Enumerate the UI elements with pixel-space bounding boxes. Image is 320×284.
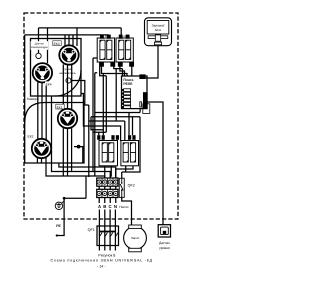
wire EK1 b down	[67, 128, 69, 176]
wire bundle h3	[89, 105, 125, 177]
wire EK1 a down	[62, 128, 64, 176]
label EK1	[56, 104, 64, 109]
svg-text:Насос: Насос	[131, 236, 140, 240]
svg-text:уровня: уровня	[159, 246, 170, 250]
KM3 KM4 top terminals	[97, 135, 135, 140]
wire to EK4	[47, 28, 49, 63]
wire long drop b	[105, 76, 107, 132]
wire long drop a	[102, 74, 104, 136]
wire EK4 to EK2 c	[45, 82, 47, 139]
wire KM4 out a to QF2	[122, 166, 126, 178]
svg-text:Датчик: Датчик	[34, 43, 45, 46]
svg-text:Камера: Камера	[27, 97, 39, 101]
contactor KM4	[121, 141, 139, 166]
wire EK2 a stub	[36, 158, 38, 163]
wire QF2 to pump	[122, 197, 132, 225]
svg-text:ЕК1: ЕК1	[57, 105, 63, 109]
wire L2 left drop to chamber	[24, 35, 26, 123]
wire L1 drop right of EK3	[76, 28, 78, 46]
svg-text:PE: PE	[56, 224, 61, 228]
wire KM3 out b	[110, 166, 111, 178]
label EK3	[53, 41, 61, 46]
wire KM2 out b	[131, 66, 133, 76]
wire tank right to bus	[81, 94, 121, 142]
wire EK2 c down	[46, 158, 105, 178]
wire PE collector	[85, 176, 87, 198]
svg-text:ЕК2: ЕК2	[28, 134, 34, 138]
wire neutral N down	[115, 198, 117, 204]
wire bundle h2	[91, 117, 140, 172]
wire phase B down	[104, 198, 106, 204]
svg-text:КМ4: КМ4	[129, 142, 134, 145]
wire C to QF1	[109, 210, 111, 251]
wire bundle h1	[95, 109, 140, 136]
wire chamber stub 2	[59, 163, 116, 178]
wire chamber stub 1	[52, 96, 111, 178]
wire EK3 to EK1 c	[71, 64, 73, 109]
wire heater sensor to bus	[71, 81, 89, 106]
svg-text:нагреватель: нагреватель	[59, 72, 76, 75]
svg-text:КМ1: КМ1	[105, 35, 110, 38]
wire bundle h4	[91, 117, 106, 135]
wire L2 to KM1	[108, 35, 110, 38]
heater sensor circle	[66, 78, 71, 83]
node PE junction	[63, 197, 66, 200]
wire bus to KM1 left mid	[95, 73, 97, 176]
wire EK3 to EK1 b	[67, 65, 69, 109]
enclosure dashed border	[24, 13, 178, 219]
pump motor (Насос)	[124, 225, 147, 252]
wire to EK3 pin2	[68, 35, 70, 46]
contactor KM2	[116, 35, 133, 66]
tank dome arc	[55, 70, 81, 96]
svg-text:ЕК4: ЕК4	[46, 82, 52, 86]
svg-text:Насос: Насос	[119, 205, 129, 209]
wire EK2 b stub	[41, 158, 43, 163]
level sensor (Датчик уровня)	[158, 225, 170, 237]
svg-text:Сушка-: Сушка-	[63, 68, 72, 71]
wire PE run	[57, 198, 86, 235]
wire EK3 to EK1 a	[62, 64, 64, 109]
wire B to QF1	[104, 210, 106, 251]
label EK4	[45, 81, 53, 85]
wire relay board to level sensor	[147, 102, 163, 225]
terminal strip XT row1	[97, 178, 118, 186]
wire to EK3 pin1	[64, 35, 66, 46]
node PE end	[56, 234, 58, 236]
svg-text:A: A	[98, 204, 101, 209]
control panel	[145, 18, 172, 46]
ground earth symbol	[55, 201, 64, 210]
svg-text:Датчик: Датчик	[159, 241, 170, 245]
wire L1 bus	[39, 27, 122, 29]
contactor KM1	[97, 35, 114, 66]
wire KM3 out a	[104, 166, 106, 178]
heater connector EK3	[59, 45, 78, 64]
wire KM4 out b	[116, 166, 133, 178]
label temperature sensor	[31, 41, 49, 50]
chamber outline (Камера)	[25, 103, 84, 164]
wire KM2 out a	[120, 66, 125, 76]
temperature sensor	[36, 53, 41, 58]
svg-text:Рисунок 8: Рисунок 8	[98, 253, 115, 257]
heater connector EK4	[33, 63, 52, 82]
wire panel to relay board	[145, 46, 158, 78]
wire strip links	[99, 186, 116, 189]
tank (steam tank outline)	[31, 39, 82, 97]
svg-text:QF1: QF1	[88, 228, 95, 232]
svg-text:B: B	[103, 204, 106, 209]
wire A to QF1	[98, 210, 100, 251]
wire L2 bus	[25, 34, 109, 36]
svg-text:C: C	[109, 204, 112, 209]
wire bus to KM1 left top	[93, 58, 97, 172]
wire to EK3 pin3	[72, 35, 74, 46]
svg-text:- 14 -: - 14 -	[97, 264, 106, 268]
wire EK4 to EK2 a	[37, 82, 39, 139]
wire L1 to KM2	[120, 28, 122, 38]
heater connector EK1	[58, 109, 77, 128]
breaker QF1	[97, 226, 119, 246]
svg-text:РЕЛЕ: РЕЛЕ	[123, 82, 133, 86]
relay board (Плата РЕЛЕ)	[122, 75, 150, 113]
wire EK1 c down	[71, 128, 73, 171]
wire KM1 out b	[114, 66, 123, 121]
breaker QF2	[119, 178, 124, 197]
wire N to QF1	[114, 210, 116, 251]
wire EK4 to EK2 b	[41, 83, 43, 140]
wire KM1 out a	[102, 66, 128, 76]
svg-text:блок: блок	[155, 28, 162, 32]
svg-text:температуры: температуры	[31, 46, 48, 49]
svg-text:Схема подключения ЗВАН UNIVERS: Схема подключения ЗВАН UNIVERSAL -6Д	[51, 259, 153, 263]
svg-text:N: N	[114, 204, 117, 209]
terminal strip XT row2	[97, 189, 118, 197]
svg-text:КМ2: КМ2	[123, 35, 128, 38]
wire phase C down	[109, 198, 111, 204]
node EK1 junction	[74, 147, 83, 163]
contactor KM3	[99, 141, 118, 166]
heater connector EK2	[32, 139, 51, 158]
wire L1 to sensor	[38, 28, 40, 53]
svg-text:ЕК3: ЕК3	[54, 42, 60, 46]
svg-text:QF2: QF2	[128, 184, 135, 188]
wire KM1 out a2	[100, 66, 107, 76]
wire phase A down	[98, 198, 100, 204]
